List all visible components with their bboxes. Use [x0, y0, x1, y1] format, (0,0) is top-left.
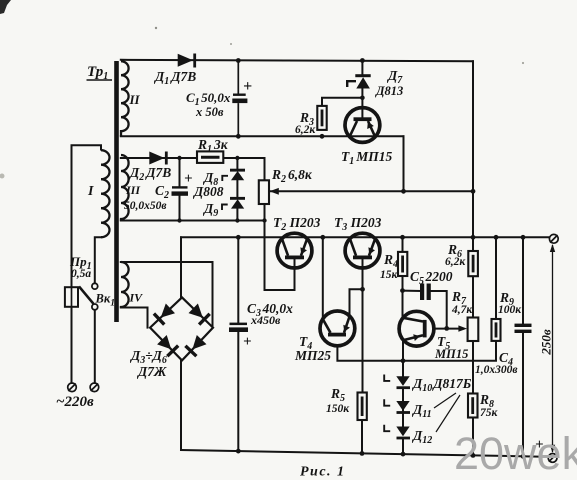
zener D12 — [396, 427, 410, 440]
wire R9 top — [495, 237, 497, 319]
transistor T5 — [399, 311, 434, 346]
svg-text:100к: 100к — [498, 304, 522, 316]
wire top rail winding II to corner — [121, 60, 473, 62]
svg-text:Д808: Д808 — [192, 184, 224, 199]
resistor R5 — [358, 393, 367, 421]
terminal output bottom — [548, 454, 557, 463]
wire R5 bottom — [361, 420, 363, 453]
svg-text:50,0х50в: 50,0х50в — [124, 200, 167, 212]
resistor R8 — [468, 394, 478, 418]
svg-text:250в: 250в — [539, 329, 554, 356]
svg-text:II: II — [129, 92, 141, 107]
pointer lines D817B to D11 D12 — [434, 393, 456, 408]
node R2 bottom / winding III — [262, 218, 266, 222]
wire mid plus rail — [181, 236, 550, 238]
wire winding IV bottom — [121, 308, 148, 328]
svg-text:III: III — [125, 183, 141, 197]
wire T5 emitter down — [402, 340, 404, 361]
switch Vk1 — [79, 283, 98, 309]
zener D9 — [230, 197, 245, 209]
svg-text:0,5а: 0,5а — [71, 268, 91, 280]
node C2 bottom — [177, 218, 181, 222]
terminal mains right — [90, 383, 99, 392]
resistor R1 — [197, 151, 223, 163]
node T1 out / wiper line — [401, 189, 406, 194]
resistor R6 — [468, 251, 478, 276]
wire R3 top link — [322, 98, 362, 106]
node D9 bottom — [235, 218, 239, 222]
node R3 / T1 base — [360, 96, 365, 101]
wire R6 R7 R8 column — [472, 237, 474, 251]
wire C3 line — [237, 237, 239, 323]
wire T5 base to R7 — [434, 328, 463, 330]
capacitor C2 — [172, 186, 189, 196]
wire bridge top up — [180, 237, 182, 297]
svg-text:~220в: ~220в — [56, 394, 94, 410]
capacitor C4 — [515, 324, 532, 333]
wire winding IV top — [121, 262, 213, 328]
wire C4 line — [522, 237, 524, 324]
node R6 / plus rail — [471, 235, 476, 240]
capacitor C3 — [229, 323, 248, 332]
node R4 / C5 / T5 collector — [400, 288, 405, 293]
wire R2 wiper line — [271, 190, 473, 192]
svg-text:6,2к: 6,2к — [445, 256, 466, 268]
terminal mains left — [68, 383, 77, 392]
transformer Tr1 core — [114, 61, 119, 322]
svg-text:х 50в: х 50в — [195, 105, 224, 119]
wire winding III bottom — [121, 220, 265, 222]
bridge rectifier D3-D6 frame — [150, 297, 213, 360]
resistor R3 — [317, 106, 326, 130]
node C3 / plus rail — [236, 235, 241, 240]
wire zener chain D10-D12 — [402, 361, 404, 376]
wire T1 output down — [403, 136, 405, 191]
svg-text:+: + — [243, 334, 252, 350]
transistor T4 — [320, 311, 355, 346]
transformer winding II — [121, 61, 129, 136]
svg-text:Рис. 1: Рис. 1 — [300, 465, 346, 480]
node wiper line corner — [471, 189, 476, 194]
node T4 base / T5 emitter / D10 — [401, 358, 406, 363]
capacitor C5 — [420, 284, 431, 301]
wire T4 base and node line to R9 — [337, 341, 496, 361]
wire C5 link — [403, 290, 421, 292]
node C1 bottom — [236, 134, 241, 139]
fuse Pr1 — [65, 287, 78, 307]
node D8 top — [235, 156, 239, 160]
wire T3 base to R5 — [362, 258, 364, 393]
terminal output top — [549, 234, 558, 243]
node C4 / minus rail — [521, 454, 526, 459]
node T4 arm / plus rail — [320, 235, 325, 240]
zener D7 — [355, 74, 370, 88]
transformer winding IV — [121, 262, 129, 308]
zener D10 — [396, 376, 410, 389]
wire mains input left — [72, 145, 102, 287]
node C3 / minus rail — [236, 449, 241, 454]
wire winding I bottom to switch — [95, 237, 101, 284]
transistor T3 — [345, 233, 380, 268]
svg-text:I: I — [87, 184, 94, 199]
bridge diode top-left — [154, 304, 175, 325]
transformer winding I — [101, 150, 110, 237]
wire D7 branch — [361, 61, 363, 75]
svg-text:+: + — [243, 78, 252, 95]
wire right drop from top rail — [472, 61, 474, 237]
svg-text:15к: 15к — [380, 269, 399, 281]
svg-text:х450в: х450в — [250, 313, 281, 327]
node D7 / rail A — [360, 58, 365, 63]
wire C2 leads — [179, 158, 181, 187]
wire bridge bottom down — [180, 360, 182, 450]
transistor T1 — [345, 108, 380, 143]
capacitor C1 — [232, 61, 247, 137]
bridge diode top-right — [189, 304, 210, 325]
svg-text:75к: 75к — [480, 407, 499, 419]
potentiometer R2 — [259, 180, 269, 204]
bridge diode bottom-left — [157, 335, 178, 356]
node R5 / minus rail — [360, 451, 365, 456]
zener D11 — [396, 401, 410, 414]
svg-text:МП25: МП25 — [294, 348, 331, 363]
node R9 / plus rail — [494, 235, 499, 240]
potentiometer R7 — [468, 318, 479, 342]
svg-text:6,2к: 6,2к — [295, 124, 316, 136]
wire R2 bottom to T2 base — [265, 204, 295, 290]
svg-text:МП15: МП15 — [434, 347, 468, 361]
wire D8 D9 chain — [236, 158, 238, 170]
transformer winding III — [121, 155, 129, 221]
svg-text:IV: IV — [129, 291, 144, 305]
bridge diode bottom-right — [185, 335, 206, 356]
svg-text:150к: 150к — [326, 403, 350, 415]
node R3 bottom — [320, 134, 325, 139]
resistor R4 — [398, 252, 407, 276]
node R4 / plus rail — [400, 235, 405, 240]
wire T4 right arm — [350, 289, 363, 316]
node C2 top — [177, 156, 181, 160]
svg-text:4,7к: 4,7к — [451, 304, 473, 316]
diode D1 — [178, 54, 196, 68]
node C1 top / rail A — [236, 58, 241, 63]
wire winding III top — [121, 158, 265, 180]
node T3 base / T4 arm — [360, 287, 365, 292]
dimension line 250v — [550, 244, 555, 453]
svg-text:1,0х300в: 1,0х300в — [475, 364, 518, 376]
wire R4 line — [402, 237, 404, 252]
svg-text:20wek: 20wek — [454, 428, 577, 479]
node R8 / minus rail — [471, 453, 476, 458]
node C4 / plus rail — [521, 235, 526, 240]
svg-text:+: + — [184, 171, 193, 187]
R7 wiper arrowhead from T5 — [458, 325, 467, 331]
transistor T2 — [277, 233, 312, 268]
svg-text:Д813: Д813 — [375, 84, 403, 98]
wire winding II bottom rail — [121, 135, 404, 137]
diode D2 — [149, 152, 167, 165]
node C5 / T5 base — [444, 326, 449, 331]
zener D8 — [230, 169, 245, 181]
R2 wiper arrowhead — [270, 188, 279, 195]
node D12 / minus rail — [401, 452, 406, 457]
wire bottom rail — [181, 450, 550, 457]
resistor R9 — [492, 319, 501, 341]
svg-text:Д7Ж: Д7Ж — [136, 364, 167, 379]
wire T4 left arm — [322, 237, 324, 319]
